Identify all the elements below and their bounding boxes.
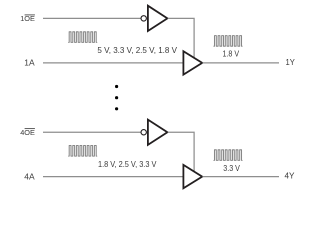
svg-text:1OE: 1OE [20,14,35,23]
svg-text:4Y: 4Y [285,172,296,181]
svg-text:5 V, 3.3 V, 2.5 V, 1.8 V: 5 V, 3.3 V, 2.5 V, 1.8 V [97,46,177,55]
svg-text:1Y: 1Y [286,58,296,67]
svg-text:4OE: 4OE [20,128,35,137]
svg-text:1A: 1A [24,59,35,68]
svg-text:1.8 V: 1.8 V [223,50,240,59]
svg-text:4A: 4A [24,172,35,181]
svg-text:1.8 V, 2.5 V, 3.3 V: 1.8 V, 2.5 V, 3.3 V [98,160,157,169]
svg-text:3.3 V: 3.3 V [223,164,240,173]
